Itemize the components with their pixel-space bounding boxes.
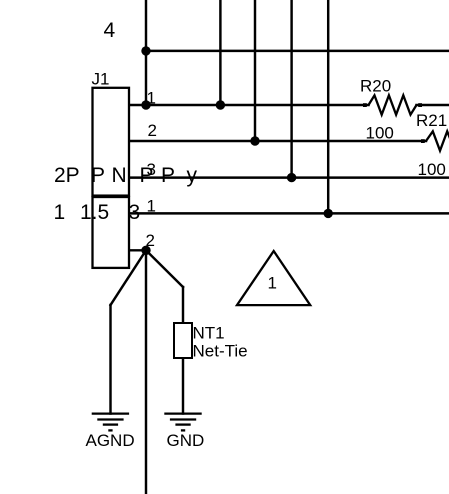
wire diagonal to NT1	[146, 250, 183, 287]
wire diagonal to AGND	[111, 250, 147, 305]
junction dot pin2/V3	[250, 136, 259, 145]
wire vertical V3	[254, 0, 256, 141]
svg-text:1: 1	[268, 274, 277, 293]
connector J1 body bottom section	[93, 197, 130, 268]
svg-text:y: y	[187, 164, 198, 187]
wire row5 stub	[129, 249, 146, 251]
junction dot row5	[141, 246, 150, 255]
wire vertical AGND stem	[109, 305, 111, 414]
junction dot pin1/V1	[141, 100, 150, 109]
wire long vertical to bottom	[145, 250, 147, 494]
resistor R20 right pin nub	[418, 103, 422, 107]
svg-text:1: 1	[147, 88, 156, 107]
wire vertical NT1 top	[182, 287, 184, 323]
svg-text:AGND: AGND	[86, 431, 135, 450]
wire row4	[129, 212, 449, 214]
svg-text:3: 3	[129, 201, 141, 224]
svg-text:N: N	[112, 164, 127, 187]
svg-text:J1: J1	[92, 69, 110, 88]
svg-text:P: P	[91, 164, 105, 187]
svg-text:R20: R20	[360, 77, 391, 96]
wire vertical V4	[290, 0, 292, 178]
svg-text:1: 1	[147, 196, 156, 215]
ground symbol AGND	[92, 414, 129, 431]
wire horizontal H0	[146, 50, 449, 52]
wire pin1 row left	[129, 104, 369, 106]
svg-text:100: 100	[366, 124, 394, 143]
junction dot pin1/V2	[216, 100, 225, 109]
svg-text:2: 2	[148, 121, 157, 140]
svg-text:R21: R21	[416, 111, 447, 130]
wire vertical NT1 to GND	[182, 358, 184, 414]
svg-text:1: 1	[54, 201, 66, 224]
resistor R21 left pin nub	[421, 139, 425, 143]
connector J1 body top section	[93, 88, 130, 196]
svg-text:4: 4	[104, 19, 116, 42]
resistor R20	[369, 95, 417, 114]
svg-text:Net-Tie: Net-Tie	[193, 341, 248, 360]
resistor R20 left pin nub	[363, 103, 367, 107]
wire vertical V5	[327, 0, 329, 213]
triangle symbol 1	[237, 251, 310, 305]
svg-text:P: P	[161, 164, 175, 187]
wire vertical V1	[145, 0, 147, 105]
svg-text:GND: GND	[167, 431, 205, 450]
wire pin1 row right	[417, 104, 449, 106]
junction dot at H0/V1	[141, 46, 150, 55]
junction dot row4/V5	[324, 209, 333, 218]
svg-text:2: 2	[146, 231, 155, 250]
wire pin3 row	[129, 176, 449, 178]
svg-text:P: P	[140, 164, 154, 187]
junction dot pin3/V4	[287, 173, 296, 182]
ground symbol GND	[164, 414, 201, 431]
svg-text:1.5: 1.5	[80, 201, 109, 224]
net-tie NT1 body	[174, 323, 192, 358]
svg-text:2P: 2P	[54, 164, 80, 187]
svg-text:100: 100	[418, 160, 446, 179]
resistor R21	[426, 131, 449, 150]
svg-text:NT1: NT1	[193, 323, 225, 342]
wire pin2 row	[129, 140, 426, 142]
wire vertical V2	[219, 0, 221, 105]
